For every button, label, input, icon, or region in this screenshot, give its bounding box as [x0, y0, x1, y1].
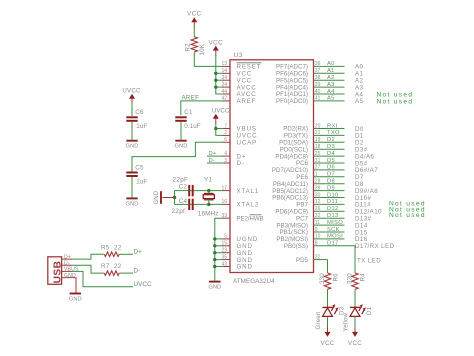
svg-text:C4: C4	[179, 198, 188, 205]
svg-text:MISO: MISO	[327, 220, 343, 226]
power symbol VCC (D3, pointing down)	[325, 332, 331, 337]
svg-text:A0: A0	[327, 61, 335, 67]
junction	[214, 72, 217, 75]
crystal Y1 16MHz	[204, 192, 214, 194]
svg-text:TX LED: TX LED	[357, 257, 381, 264]
svg-text:0.1uF: 0.1uF	[184, 123, 200, 130]
wire branch GND pin row 26	[215, 245, 224, 247]
svg-text:34: 34	[221, 75, 227, 81]
svg-text:VCC: VCC	[321, 340, 335, 347]
svg-text:VCC: VCC	[348, 340, 362, 347]
wire branch GND pin row 28	[215, 259, 224, 261]
wire branch to pin row 2	[216, 79, 224, 81]
junction	[213, 237, 216, 240]
svg-text:A3: A3	[327, 82, 335, 88]
svg-text:D1: D1	[366, 306, 373, 315]
wire R7 to D- label	[119, 272, 133, 274]
capacitor C1 0.1uF	[175, 116, 186, 118]
svg-text:D17: D17	[327, 241, 339, 247]
svg-text:4: 4	[224, 151, 227, 157]
pin 7 VBUS (left)	[223, 128, 231, 130]
svg-text:D2: D2	[327, 137, 335, 143]
svg-text:R5: R5	[101, 244, 110, 251]
pin 3 D- (left)	[223, 162, 231, 164]
pin 43 GND (left)	[223, 266, 231, 268]
resistor R5 22	[104, 252, 119, 257]
pin 24 AVCC (left)	[223, 86, 231, 88]
pin 14 VCC (left)	[223, 72, 231, 74]
ground (crystal) rotated	[162, 197, 174, 199]
svg-text:D+: D+	[64, 254, 71, 260]
svg-text:7: 7	[224, 123, 227, 129]
svg-text:Yellow: Yellow	[342, 312, 349, 331]
capacitor C5 1uF	[126, 172, 137, 174]
svg-text:Not used: Not used	[377, 98, 414, 105]
LED D3 Green	[323, 306, 333, 308]
resistor R7 22	[104, 271, 119, 276]
ground (C1)	[175, 140, 186, 142]
svg-text:R6: R6	[332, 273, 339, 282]
wire R6 to LED D3	[327, 289, 329, 307]
svg-text:D8: D8	[327, 179, 335, 185]
power symbol VCC (D1, pointing down)	[352, 332, 358, 337]
USB pin VBUS	[62, 270, 73, 272]
svg-text:D11: D11	[327, 199, 338, 205]
svg-text:A5: A5	[327, 96, 335, 102]
pin 34 VCC (left)	[223, 79, 231, 81]
wire R5 to D+ label	[119, 253, 133, 255]
svg-text:D13: D13	[327, 213, 339, 219]
wire cap commons	[175, 190, 189, 192]
wire AREF net	[181, 101, 224, 115]
svg-text:22pf: 22pf	[172, 208, 186, 215]
wire PD5 to R6 column	[327, 260, 329, 273]
wire R4 to LED D1	[354, 289, 356, 307]
junction	[214, 85, 217, 88]
LED D1 Yellow	[350, 306, 360, 308]
op IC U3 ATMEGA32U4 body	[230, 60, 314, 273]
wire branch GND pin row 25	[215, 238, 224, 240]
svg-text:USB: USB	[53, 261, 64, 284]
svg-text:UVCC: UVCC	[122, 88, 141, 95]
svg-text:A4: A4	[327, 89, 335, 95]
USB pin D-	[62, 264, 73, 266]
ground (IC GND rail)	[209, 281, 220, 283]
svg-text:D9: D9	[327, 185, 335, 191]
wire C5 to ground	[131, 177, 133, 198]
wire	[193, 27, 195, 37]
capacitor C4 22pf	[188, 199, 190, 210]
wire UVCC to pins VBUS+UVCC	[216, 123, 224, 135]
svg-text:D12: D12	[327, 206, 339, 212]
junction	[213, 244, 216, 247]
svg-text:C5: C5	[135, 164, 144, 171]
svg-text:UVCC: UVCC	[212, 108, 230, 114]
svg-text:GND: GND	[237, 264, 253, 271]
svg-text:VCC: VCC	[187, 10, 202, 17]
junction	[207, 203, 210, 206]
pin 35 GND (left)	[223, 259, 231, 261]
svg-text:GND: GND	[126, 144, 139, 150]
resistor R6 330	[324, 273, 330, 289]
svg-text:D6: D6	[327, 165, 335, 171]
svg-text:3: 3	[224, 158, 227, 164]
wire branch GND pin row 27	[215, 252, 224, 254]
svg-text:13: 13	[221, 61, 227, 67]
svg-text:1uF: 1uF	[136, 179, 147, 186]
wire branch GND pin row 29	[215, 266, 224, 268]
svg-text:A5: A5	[355, 98, 364, 105]
svg-text:D3: D3	[327, 144, 335, 150]
svg-text:MOSI: MOSI	[327, 234, 343, 240]
svg-text:PB0(SS): PB0(SS)	[284, 243, 308, 250]
svg-text:UCAP: UCAP	[237, 140, 258, 147]
svg-text:TXO: TXO	[327, 130, 340, 136]
svg-text:C6: C6	[135, 109, 144, 116]
svg-text:1uF: 1uF	[136, 123, 147, 130]
resistor R2 10K	[191, 37, 197, 52]
svg-text:D5: D5	[327, 158, 335, 164]
svg-text:C2: C2	[179, 184, 188, 191]
USB pin D+	[62, 258, 73, 260]
svg-text:R2: R2	[184, 43, 191, 52]
junction	[214, 79, 217, 82]
wire XTAL2 net	[188, 203, 223, 205]
svg-text:10K: 10K	[199, 43, 206, 55]
svg-text:14: 14	[221, 68, 227, 74]
svg-text:D4: D4	[327, 151, 335, 157]
svg-text:D-: D-	[134, 267, 141, 274]
wire USB GND to ground	[73, 278, 76, 293]
wire branch to pin row 3	[216, 86, 224, 88]
pin 5 UGND (left)	[223, 238, 231, 240]
pin 13 RESET (left)	[223, 65, 231, 67]
junction	[173, 196, 176, 199]
wire D17 net to R4 column	[354, 246, 356, 273]
svg-text:D10: D10	[327, 192, 339, 198]
capacitor C6 1uF	[126, 116, 137, 118]
svg-text:Y1: Y1	[204, 177, 213, 184]
svg-text:22pF: 22pF	[173, 177, 189, 184]
svg-text:22: 22	[114, 244, 122, 251]
wire USB D+ to R5	[73, 254, 105, 259]
pin 15 GND (left)	[223, 245, 231, 247]
svg-text:C1: C1	[184, 109, 193, 116]
pin 42 AREF (left)	[223, 100, 231, 102]
svg-text:44: 44	[221, 89, 227, 95]
svg-text:D7: D7	[327, 172, 335, 178]
pin 33 PE2/HWB (left)	[223, 217, 231, 219]
junction	[214, 127, 217, 130]
USB pin GND	[62, 277, 73, 279]
svg-text:Green: Green	[315, 311, 322, 330]
svg-text:24: 24	[221, 82, 227, 88]
svg-text:2: 2	[224, 130, 227, 136]
wire branch VBUS	[216, 128, 224, 130]
svg-text:PD5: PD5	[296, 257, 309, 264]
svg-text:22: 22	[114, 263, 122, 270]
wire UCAP to C5	[132, 142, 224, 172]
svg-text:XTAL2: XTAL2	[237, 202, 260, 209]
junction	[213, 258, 216, 261]
svg-text:RXI: RXI	[327, 123, 338, 129]
wire UVCC to C6	[131, 103, 133, 116]
svg-text:6: 6	[224, 137, 227, 143]
svg-text:GND: GND	[175, 144, 188, 150]
wire USB D- to R7	[73, 265, 105, 273]
svg-text:XTAL1: XTAL1	[237, 188, 260, 195]
resistor R4 330	[352, 273, 358, 289]
svg-text:GND: GND	[154, 190, 160, 204]
wire D+ net stub	[207, 155, 224, 157]
ground (USB)	[70, 293, 81, 295]
pin 2 UVCC (left)	[223, 134, 231, 136]
svg-text:ATMEGA32U4: ATMEGA32U4	[233, 278, 275, 285]
svg-text:GND: GND	[69, 297, 82, 303]
connector USB body	[48, 257, 62, 285]
svg-text:330: 330	[347, 273, 354, 284]
pin 23 GND (left)	[223, 252, 231, 254]
wire XTAL1 net	[188, 190, 223, 192]
wire C6 to ground	[131, 122, 133, 140]
svg-text:330: 330	[319, 273, 326, 284]
wire R2 to RESET pin 13	[194, 52, 223, 67]
capacitor C2 22pF	[188, 185, 190, 196]
svg-text:R7: R7	[101, 263, 110, 270]
wire branch to pin row 1	[216, 72, 224, 74]
ground (C5)	[126, 197, 137, 199]
svg-text:D-: D-	[64, 260, 70, 266]
svg-text:GND: GND	[208, 285, 221, 291]
pin 16 XTAL2 (left)	[223, 203, 231, 205]
svg-text:16MHz: 16MHz	[198, 210, 219, 217]
svg-text:AREF: AREF	[182, 95, 200, 102]
svg-text:UVCC: UVCC	[134, 281, 153, 288]
wire VBUS to UVCC label	[73, 271, 133, 286]
svg-text:Not used: Not used	[389, 212, 426, 219]
svg-text:D17/RX LED: D17/RX LED	[355, 243, 395, 250]
svg-text:D+: D+	[134, 249, 143, 256]
junction	[213, 251, 216, 254]
svg-text:PE2/HWB: PE2/HWB	[237, 216, 264, 222]
pin 6 UCAP (left)	[223, 141, 231, 143]
pin 4 D+ (left)	[223, 155, 231, 157]
svg-text:PF0(ADC0): PF0(ADC0)	[276, 98, 308, 105]
svg-text:D+: D+	[209, 151, 217, 157]
svg-text:A2: A2	[327, 75, 335, 81]
junction	[207, 189, 210, 192]
junction	[213, 265, 216, 268]
svg-text:AREF: AREF	[237, 98, 257, 105]
svg-text:D-: D-	[237, 160, 245, 167]
wire PE2/HWB to ground rail	[215, 218, 224, 280]
svg-text:D-: D-	[209, 158, 216, 164]
svg-text:SCK: SCK	[327, 227, 340, 233]
svg-text:GND: GND	[126, 201, 139, 207]
svg-text:5: 5	[224, 234, 227, 240]
svg-text:U3: U3	[234, 52, 243, 59]
wire D- net stub	[207, 162, 224, 164]
svg-text:VCC: VCC	[208, 40, 223, 47]
svg-text:A1: A1	[327, 68, 335, 74]
svg-text:R4: R4	[360, 273, 367, 282]
wire VCC rail	[216, 55, 224, 95]
pin 44 AVCC (left)	[223, 93, 231, 95]
pin 17 XTAL1 (left)	[223, 190, 231, 192]
wire crystal to XTAL rows	[208, 191, 210, 194]
wire C1 to ground	[180, 122, 182, 140]
ground (C6)	[126, 140, 137, 142]
